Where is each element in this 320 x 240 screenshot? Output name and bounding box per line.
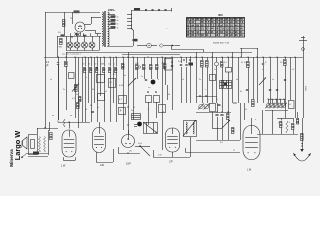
svg-text:x0: x0 bbox=[236, 79, 238, 81]
svg-text:0,5: 0,5 bbox=[113, 74, 116, 76]
svg-text:0,1: 0,1 bbox=[289, 104, 292, 106]
svg-text:xxx xxx x xxxxxxx x: xxx xxx x xxxxxxx x bbox=[62, 54, 82, 56]
svg-text:4v: 4v bbox=[117, 20, 119, 22]
svg-text:x: x bbox=[289, 122, 290, 124]
svg-text:5x: 5x bbox=[199, 79, 201, 81]
svg-text:xx: xx bbox=[52, 115, 54, 117]
svg-text:L?F: L?F bbox=[169, 162, 174, 164]
svg-text:x: x bbox=[86, 77, 87, 79]
svg-text:4v: 4v bbox=[117, 27, 119, 29]
svg-text:1,W: 1,W bbox=[158, 155, 162, 157]
svg-text:Minerva: Minerva bbox=[9, 149, 14, 167]
svg-text:1x: 1x bbox=[141, 76, 143, 78]
svg-text:1 W: 1 W bbox=[61, 165, 66, 168]
svg-text:x: x bbox=[278, 122, 279, 124]
svg-text:1x: 1x bbox=[97, 107, 99, 109]
svg-text:2x: 2x bbox=[214, 69, 216, 71]
svg-text:xxxxx xxx + xx: xxxxx xxx + xx bbox=[213, 42, 230, 45]
svg-text:x1: x1 bbox=[216, 99, 218, 101]
svg-text:0*: 0* bbox=[265, 62, 267, 64]
svg-text:x: x bbox=[255, 119, 256, 121]
svg-text:1x: 1x bbox=[76, 94, 78, 96]
svg-text:6v: 6v bbox=[117, 24, 119, 26]
svg-text:300: 300 bbox=[218, 13, 223, 17]
svg-text:x0: x0 bbox=[85, 109, 87, 111]
svg-text:x2: x2 bbox=[105, 91, 107, 93]
svg-text:x1: x1 bbox=[50, 79, 52, 81]
svg-text:2x: 2x bbox=[245, 109, 247, 111]
svg-text:50: 50 bbox=[92, 89, 94, 91]
svg-text:L4F: L4F bbox=[100, 164, 105, 167]
svg-text:x,x: x,x bbox=[148, 87, 151, 89]
svg-text:Largo W: Largo W bbox=[13, 131, 22, 161]
svg-text:30: 30 bbox=[168, 94, 170, 96]
svg-text:x: x bbox=[158, 79, 159, 81]
svg-text:2M: 2M bbox=[101, 64, 104, 66]
svg-text:x1: x1 bbox=[182, 79, 184, 81]
svg-text:3x: 3x bbox=[124, 75, 126, 77]
svg-text:2x: 2x bbox=[131, 110, 133, 112]
svg-text:x: x bbox=[205, 89, 206, 91]
svg-text:220V~: 220V~ bbox=[108, 8, 116, 12]
svg-text:1W?: 1W? bbox=[126, 163, 132, 166]
svg-text:xx: xx bbox=[233, 150, 235, 152]
svg-text:x9x: x9x bbox=[129, 151, 132, 153]
svg-text:x: x bbox=[262, 69, 263, 71]
svg-text:4v: 4v bbox=[117, 17, 119, 19]
svg-text:2x: 2x bbox=[63, 89, 65, 91]
svg-text:1x: 1x bbox=[272, 79, 274, 81]
svg-text:L W: L W bbox=[247, 169, 252, 172]
svg-text:x5: x5 bbox=[292, 69, 294, 71]
svg-text:0,5M: 0,5M bbox=[119, 85, 124, 87]
svg-text:x2: x2 bbox=[133, 107, 135, 109]
